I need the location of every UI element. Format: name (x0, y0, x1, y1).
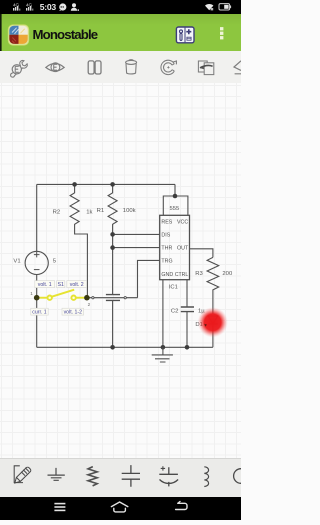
node dot 555 top (173, 194, 178, 199)
overflow menu (220, 27, 223, 39)
svg-text:R1: R1 (97, 208, 105, 214)
IC1 555 box (160, 215, 190, 279)
svg-text:555: 555 (170, 206, 180, 212)
ground tool icon (48, 468, 65, 480)
svg-text:THR: THR (161, 246, 172, 252)
wire V1 bottom (36, 275, 38, 298)
svg-text:R2: R2 (53, 209, 61, 215)
svg-text:GND: GND (161, 272, 173, 278)
wire C2 bottom (186, 312, 188, 348)
LED left corner mark (204, 324, 207, 327)
svg-text:C2: C2 (171, 308, 179, 314)
wire switch T1 to ground rail (36, 298, 38, 348)
svg-text:S1: S1 (58, 282, 64, 288)
pencil tool icon (14, 466, 31, 483)
voltage source V1 (25, 251, 48, 274)
menu button (54, 503, 65, 511)
svg-text:IC1: IC1 (169, 284, 178, 290)
status bar (0, 0, 241, 14)
resistor R3 (207, 257, 219, 313)
svg-text:1: 1 (30, 291, 33, 296)
canvas (0, 83, 241, 458)
sim 1 4G (13, 3, 20, 11)
wire C1 bottom (112, 300, 114, 347)
values icon (176, 27, 194, 43)
ground symbol (152, 347, 173, 362)
svg-text:1k: 1k (86, 209, 92, 215)
svg-text:100k: 100k (123, 208, 136, 214)
partial icon at edge (234, 61, 241, 74)
probe label curr. 1 (31, 308, 48, 316)
svg-text:TRG: TRG (161, 259, 172, 265)
toolbar (0, 51, 241, 84)
nav bar (0, 497, 241, 520)
svg-text:V1: V1 (13, 259, 20, 265)
switch terminal node 2 (84, 295, 90, 301)
wire V1 top (36, 184, 38, 251)
person icon (71, 3, 79, 11)
node dot DIS (110, 232, 115, 237)
resistor R2 (70, 184, 87, 297)
inductor tool icon (204, 467, 208, 487)
pause icon (88, 61, 101, 74)
svg-text:4G: 4G (13, 3, 20, 8)
svg-text:DIS: DIS (161, 233, 170, 239)
partial source tool icon (234, 469, 249, 484)
probe label volt. 2 (node 2) (67, 281, 87, 289)
node dot C1 bottom (110, 345, 115, 350)
svg-text:volt. 1-2: volt. 1-2 (64, 310, 83, 316)
rotate icon (161, 60, 176, 74)
wire OUT (190, 249, 213, 258)
capacitor tool icon (122, 465, 140, 487)
resistor R1 (108, 184, 117, 294)
wifi icon (205, 4, 213, 10)
switch terminal node 1 (34, 295, 40, 301)
probe label volt. 1 (node 1) (35, 281, 55, 289)
chat bubble icon (59, 3, 66, 11)
svg-text:VCC: VCC (177, 220, 188, 226)
LED D1 (208, 316, 218, 347)
left screen edge shadow (0, 14, 2, 52)
mirror icon (198, 61, 213, 75)
node dot GND rail (161, 345, 166, 350)
svg-text:5:03: 5:03 (40, 2, 57, 12)
wire THR (113, 247, 160, 249)
trash icon (126, 60, 137, 74)
wire T2 to TRG with hops (87, 260, 160, 297)
node dot R2 top (72, 182, 77, 187)
svg-text:RES: RES (161, 220, 172, 226)
svg-text:R3: R3 (195, 271, 203, 277)
svg-text:5: 5 (53, 259, 57, 265)
edit-component wrench icon (11, 60, 28, 77)
home button (111, 502, 127, 512)
node dot R1 top (110, 182, 115, 187)
hop circle right (124, 297, 126, 299)
svg-text:volt. 2: volt. 2 (70, 282, 84, 288)
wire top rail (37, 183, 175, 185)
LED glow (198, 307, 228, 337)
view eye icon (46, 63, 64, 72)
battery icon (219, 4, 231, 10)
sim 2 4G (26, 3, 33, 11)
wire bottom rail (37, 346, 213, 348)
svg-text:volt. 1: volt. 1 (38, 282, 52, 288)
back button (176, 502, 187, 510)
node dot THR (110, 245, 115, 250)
svg-text:4G: 4G (26, 3, 33, 8)
app icon (8, 25, 29, 45)
hop circle left (92, 297, 94, 299)
node dot C2 bottom (185, 345, 190, 350)
capacitor C2 plates (181, 307, 194, 312)
polarized capacitor tool icon (159, 466, 178, 486)
switch S1 (selected, open) (39, 290, 84, 300)
wire 555 top bracket (163, 184, 188, 215)
wire DIS (113, 233, 160, 235)
app bar (0, 14, 241, 51)
svg-text:curr. 1: curr. 1 (32, 310, 47, 316)
svg-text:CTRL: CTRL (175, 272, 188, 278)
palette (0, 458, 241, 498)
wire CTRL pin down (186, 280, 188, 307)
svg-text:OUT: OUT (177, 246, 189, 252)
wire GND pin down (162, 280, 164, 348)
svg-text:200: 200 (222, 271, 233, 277)
probe label volt. 1-2 (62, 308, 84, 316)
capacitor C1 plates (106, 295, 120, 301)
resistor tool icon (88, 467, 97, 486)
circuit svg overlay (0, 83, 241, 458)
svg-text:2: 2 (88, 302, 91, 307)
label S1 (57, 281, 65, 289)
